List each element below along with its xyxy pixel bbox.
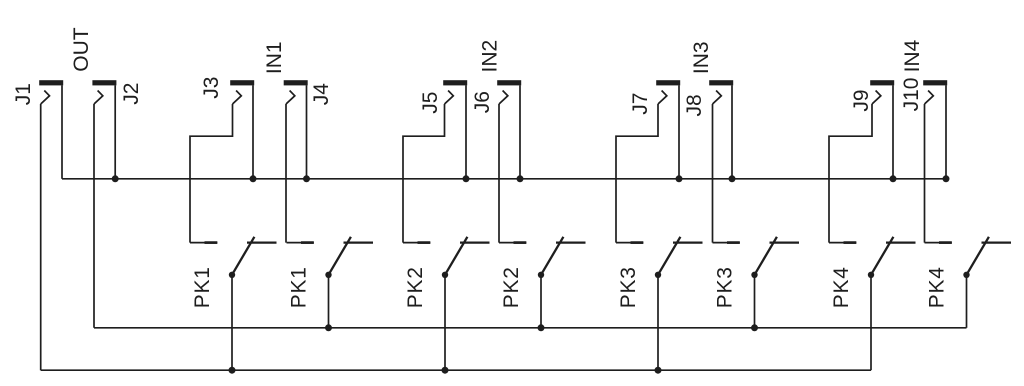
jack J2 bbox=[92, 80, 116, 179]
svg-text:PK3: PK3 bbox=[714, 266, 737, 308]
switch PK2 bbox=[403, 237, 490, 370]
svg-text:IN4: IN4 bbox=[901, 39, 924, 72]
wire J3 switch-contact jog to switch PK1 bbox=[190, 104, 233, 243]
junction J7 tip on main bus bbox=[676, 175, 683, 182]
svg-text:PK4: PK4 bbox=[926, 266, 949, 308]
wire J5 switch-contact jog to switch PK2 bbox=[403, 104, 445, 243]
wire J4 switch-contact down to switch PK1 bbox=[285, 104, 287, 243]
switch PK1 bbox=[287, 237, 374, 328]
svg-text:IN3: IN3 bbox=[690, 41, 713, 74]
junction switch PK1 on bottom bus bbox=[229, 367, 236, 374]
junction J6 tip on main bus bbox=[517, 175, 524, 182]
jack J10 bbox=[923, 80, 947, 179]
svg-text:PK2: PK2 bbox=[404, 266, 427, 308]
junction J8 tip on main bus bbox=[729, 175, 736, 182]
jack J8 bbox=[709, 80, 733, 179]
jack J7 bbox=[656, 80, 680, 179]
wire J10 switch-contact down to switch PK4 bbox=[924, 104, 926, 243]
junction switch PK2 on middle bus bbox=[538, 324, 545, 331]
switch PK4 bbox=[829, 237, 916, 370]
junction J4 tip on main bus bbox=[303, 175, 310, 182]
svg-text:J5: J5 bbox=[419, 92, 442, 114]
wire bottom bus bbox=[41, 369, 871, 371]
svg-text:PK3: PK3 bbox=[617, 266, 640, 308]
junction switch PK3 on bottom bus bbox=[655, 367, 662, 374]
wire J6 switch-contact down to switch PK2 bbox=[498, 104, 500, 243]
svg-text:PK1: PK1 bbox=[191, 266, 214, 308]
svg-text:J6: J6 bbox=[471, 91, 494, 113]
junction J5 tip on main bus bbox=[463, 175, 470, 182]
wire J8 switch-contact down to switch PK3 bbox=[712, 104, 714, 243]
switch PK3 bbox=[616, 237, 703, 370]
wire J1 switch-contact to bottom bus bbox=[40, 104, 42, 370]
wire main output bus (tips) bbox=[62, 178, 946, 180]
svg-text:J3: J3 bbox=[200, 77, 223, 99]
svg-text:J1: J1 bbox=[12, 83, 35, 105]
svg-text:PK4: PK4 bbox=[830, 266, 853, 308]
wire J7 switch-contact jog to switch PK3 bbox=[616, 104, 658, 243]
wire J2 switch-contact to middle bus bbox=[93, 104, 95, 328]
jack J1 bbox=[39, 80, 63, 179]
svg-text:OUT: OUT bbox=[70, 27, 93, 72]
junction J9 tip on main bus bbox=[890, 175, 897, 182]
junction J2 tip on main bus bbox=[112, 175, 119, 182]
junction switch PK1 on middle bus bbox=[325, 324, 332, 331]
svg-text:J4: J4 bbox=[310, 83, 333, 106]
jack J5 bbox=[443, 80, 467, 179]
svg-text:J7: J7 bbox=[629, 93, 652, 115]
svg-text:IN2: IN2 bbox=[478, 40, 501, 73]
svg-text:J9: J9 bbox=[850, 89, 873, 111]
junction switch PK2 on bottom bus bbox=[442, 367, 449, 374]
jack J3 bbox=[230, 80, 254, 179]
svg-text:J8: J8 bbox=[683, 94, 706, 116]
switch PK3 bbox=[713, 237, 800, 328]
jack J9 bbox=[870, 80, 894, 179]
svg-text:J2: J2 bbox=[120, 83, 143, 105]
wire middle bus bbox=[94, 327, 967, 329]
svg-text:PK1: PK1 bbox=[288, 266, 311, 308]
jack J6 bbox=[497, 80, 521, 179]
switch PK1 bbox=[190, 237, 277, 370]
wire J9 switch-contact jog to switch PK4 bbox=[829, 104, 872, 243]
junction switch PK3 on middle bus bbox=[751, 324, 758, 331]
switch PK4 bbox=[925, 237, 1012, 328]
svg-text:PK2: PK2 bbox=[500, 266, 523, 308]
junction J3 tip on main bus bbox=[250, 175, 257, 182]
svg-text:J10: J10 bbox=[900, 78, 923, 112]
jack J4 bbox=[284, 80, 308, 179]
junction J10 tip on main bus bbox=[943, 175, 950, 182]
switch PK2 bbox=[499, 237, 586, 328]
svg-text:IN1: IN1 bbox=[263, 41, 286, 74]
